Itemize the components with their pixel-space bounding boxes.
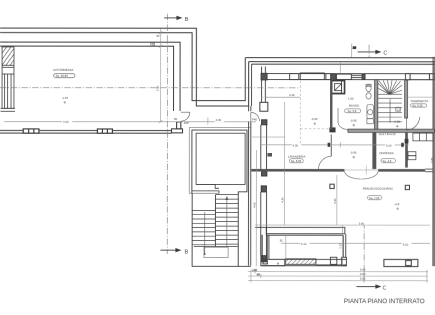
garage bottom wall pilaster 1 — [23, 129, 112, 133]
section arrow B top — [164, 16, 182, 20]
passage door arc (garage side) — [181, 112, 260, 121]
stair lower landing — [204, 247, 228, 257]
svg-text:Sq. 90,85: Sq. 90,85 — [56, 74, 68, 78]
svg-text:4.30: 4.30 — [216, 118, 222, 122]
stadium box sq garage — [54, 74, 75, 78]
dim horizontal lavanderia top — [261, 144, 409, 146]
left shaft / external stair — [1, 47, 16, 111]
house top wall (triple) — [245, 57, 435, 59]
bath fixtures: wc — [366, 84, 373, 123]
bottom wall double line — [266, 233, 345, 235]
stair treads left flight — [192, 209, 215, 211]
svg-text:B: B — [185, 17, 189, 23]
column lavanderia — [330, 184, 334, 188]
svg-text:12x17,8=4,30: 12x17,8=4,30 — [379, 132, 396, 136]
dim long horizontal passage — [4, 121, 256, 123]
courtyard outer light lines — [189, 127, 250, 266]
stair flight divider — [214, 195, 216, 247]
svg-text:4.30: 4.30 — [281, 197, 285, 203]
wall between lavanderia and dispensa — [372, 132, 376, 169]
stair direction lines — [204, 196, 228, 255]
svg-text:-0.95: -0.95 — [350, 119, 357, 123]
courtyard inner line rect — [196, 133, 245, 184]
dim right edge vertical — [433, 62, 435, 266]
svg-text:4.30: 4.30 — [293, 144, 299, 148]
bath fixtures: shower/tub — [367, 105, 373, 119]
centerline C vertical bottom — [363, 222, 365, 282]
bath fixtures: bidet — [366, 93, 371, 99]
house top window band — [261, 44, 435, 81]
bottom band lines — [261, 257, 347, 266]
svg-text:30: 30 — [280, 238, 284, 242]
double door arcs pranzo — [344, 171, 361, 179]
house west outer wall lines — [249, 64, 252, 266]
svg-text:P40: P40 — [252, 118, 257, 122]
svg-text:Sq. 9,30: Sq. 9,30 — [412, 104, 423, 108]
dim terrace y245 — [281, 242, 430, 244]
stair core right wall — [405, 80, 408, 118]
house bottom: interior floor line — [255, 227, 346, 259]
dim pranzo vertical — [342, 225, 344, 266]
passage door arc (house side) — [250, 112, 252, 121]
dim left house vertical — [255, 150, 257, 266]
stair core bottom wall — [348, 129, 435, 132]
svg-text:C1: C1 — [397, 108, 401, 112]
lavanderia door arc — [318, 156, 331, 169]
wire: garage top outer wall line 2 — [0, 33, 245, 101]
wall thickness tick above band — [339, 63, 341, 73]
detached wall segment right — [384, 259, 418, 266]
svg-text:4.60: 4.60 — [252, 202, 256, 208]
straight flight treads — [378, 102, 402, 104]
stair core left wall — [375, 80, 378, 132]
centerline B vertical — [166, 14, 168, 254]
svg-text:BAGNO: BAGNO — [349, 104, 360, 108]
svg-text:AUTORIMESSA: AUTORIMESSA — [53, 68, 73, 72]
section arrow C bottom — [356, 166, 381, 289]
wall right of dispensa — [405, 132, 408, 167]
courtyard inner step detail — [196, 184, 219, 188]
svg-text:6.80: 6.80 — [430, 157, 434, 163]
svg-text:60: 60 — [174, 117, 178, 121]
stairwell enclosure — [192, 193, 251, 266]
window label box C1 — [396, 107, 401, 111]
svg-text:-0.95: -0.95 — [350, 151, 357, 155]
wire: garage top inner wall line 2 — [0, 46, 174, 111]
blocks on bottom band — [330, 257, 336, 264]
chimney duct block — [332, 81, 345, 94]
stair treads right flight — [192, 195, 238, 247]
stair direction — [389, 99, 391, 122]
svg-text:40: 40 — [257, 273, 261, 277]
svg-text:Sq. 4,8: Sq. 4,8 — [382, 159, 391, 163]
svg-text:C: C — [383, 286, 387, 292]
svg-text:10: 10 — [353, 46, 357, 50]
house inner west wall with pilasters — [260, 67, 272, 262]
junction block — [329, 127, 335, 132]
svg-text:Sq. 5,8: Sq. 5,8 — [348, 109, 357, 113]
section arrow C top — [358, 50, 382, 54]
svg-text:8.00: 8.00 — [403, 243, 409, 247]
house winder stair fan — [378, 80, 402, 122]
svg-text:3.50: 3.50 — [155, 85, 159, 91]
lavanderia-bagno separating wall — [330, 80, 332, 129]
bagno left wall — [333, 80, 342, 94]
svg-text:DISPENSA: DISPENSA — [380, 151, 394, 155]
dim lavanderia verticals — [284, 102, 286, 225]
dim bottom stack — [248, 271, 428, 273]
dimension lines — [4, 28, 434, 282]
end block of garage bottom wall at corridor — [172, 122, 183, 133]
svg-text:60: 60 — [156, 34, 160, 38]
svg-text:5.00: 5.00 — [386, 144, 392, 148]
section arrow B bottom — [160, 248, 181, 252]
svg-text:30: 30 — [151, 43, 155, 47]
svg-text:PIANTA PIANO INTERRATO: PIANTA PIANO INTERRATO — [344, 298, 425, 305]
dashed soffit lines in lavanderia area — [261, 81, 330, 147]
hatch of shaft — [2, 47, 14, 65]
column pranzo — [405, 185, 409, 189]
svg-text:-0.95: -0.95 — [311, 117, 318, 121]
svg-text:9.40: 9.40 — [360, 268, 366, 272]
svg-text:1.15: 1.15 — [339, 243, 343, 249]
bagno door leaf + arc — [337, 108, 339, 123]
svg-text:B: B — [185, 249, 189, 255]
svg-text:PRANZO/SOGGIORNO: PRANZO/SOGGIORNO — [363, 187, 394, 191]
svg-text:4.30: 4.30 — [333, 198, 337, 204]
wire: garage bottom wall — [0, 129, 171, 131]
svg-text:+10: +10 — [394, 202, 399, 206]
svg-text:3.00: 3.00 — [63, 120, 69, 124]
house east wall — [433, 57, 435, 266]
svg-text:5.60: 5.60 — [360, 277, 366, 281]
svg-text:Sq. 8,65: Sq. 8,65 — [291, 159, 302, 163]
dim garage vertical — [160, 28, 162, 121]
centerline C vertical top — [368, 45, 370, 58]
dim horizontal y97 — [266, 96, 300, 98]
white gaps under dim texts — [62, 118, 412, 246]
wire: garage top inner wall line 1 — [0, 42, 180, 111]
svg-text:40P: 40P — [184, 121, 189, 125]
courtyard dark inner edge + step into stairwell — [192, 130, 247, 266]
centerline horizontal garage — [0, 87, 300, 89]
svg-text:+40: +40 — [252, 268, 257, 272]
svg-text:C: C — [383, 51, 387, 57]
svg-text:1.90: 1.90 — [348, 97, 354, 101]
svg-text:-0.95: -0.95 — [394, 120, 401, 124]
two small boxes — [408, 152, 416, 156]
garage bottom wall pilaster 2 — [97, 129, 112, 133]
wire: garage top outer wall line 1 — [0, 28, 249, 106]
dim bottom y225 — [255, 224, 430, 226]
svg-text:5.10: 5.10 — [301, 242, 307, 246]
door arc into right room — [407, 117, 420, 130]
terrace bottom wall band — [261, 259, 285, 265]
svg-text:Sq. 7,68: Sq. 7,68 — [369, 196, 380, 200]
svg-text:4.30: 4.30 — [289, 93, 295, 97]
hatched retaining wall segment — [285, 259, 316, 265]
lavanderia top wall (dark) — [251, 169, 433, 172]
svg-text:LAVANDERIA: LAVANDERIA — [288, 154, 305, 158]
svg-text:3.60: 3.60 — [359, 221, 365, 225]
dash-dot centerlines — [0, 14, 369, 283]
cabinet row in right room — [408, 133, 433, 160]
svg-text:9.60: 9.60 — [360, 272, 366, 276]
svg-text:-1.45: -1.45 — [62, 96, 69, 100]
